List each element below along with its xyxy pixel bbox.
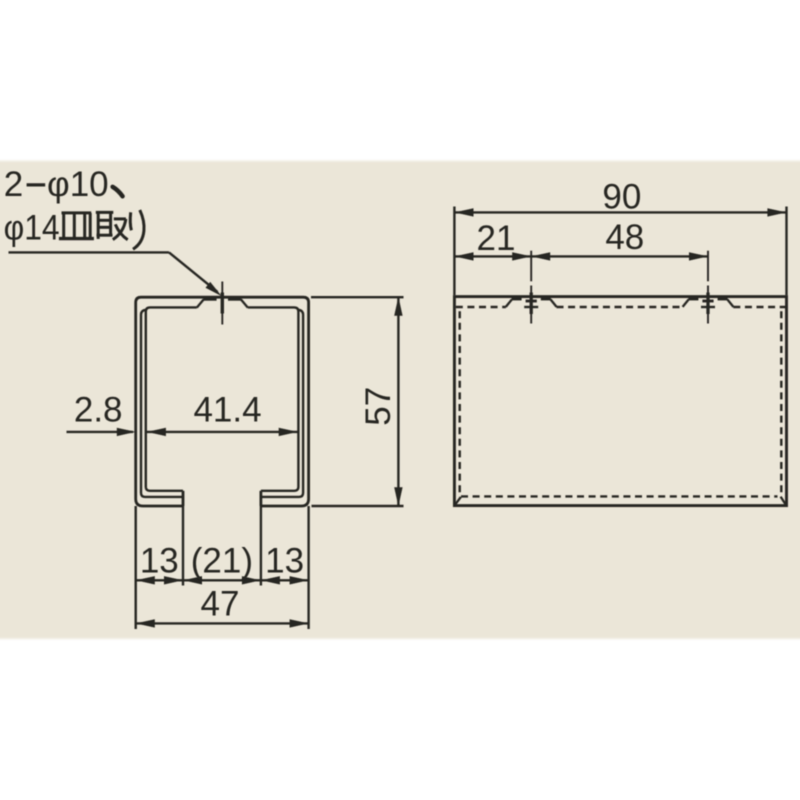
ideographic comma — [113, 187, 123, 197]
svg-text:41.4: 41.4 — [193, 391, 261, 430]
side view: hidden dashed bottom edge — [461, 495, 778, 497]
side view: bottom-right corner diagonal — [781, 497, 786, 505]
dimension 57 extension lines — [311, 296, 404, 298]
side view: countersunk hole 1 ticks — [512, 298, 522, 301]
left view: right flange tip edge — [259, 491, 262, 506]
dimension 41.4 line and arrows — [147, 431, 298, 433]
svg-text:φ14: φ14 — [4, 209, 60, 248]
side view: hidden (dashed) top inner surface line — [456, 306, 506, 308]
side view: countersunk hole 1 chamfer lines — [506, 299, 512, 307]
dimension 21/48 line and arrows — [454, 255, 708, 257]
side view: outer rectangle — [454, 297, 786, 506]
dimension 47 line and arrows — [136, 622, 309, 624]
left view: inner surface line (left wall + top + left flange) — [146, 307, 197, 490]
side view: bottom-left corner diagonal — [455, 497, 461, 505]
left view: countersunk hole left tick — [203, 298, 216, 301]
leader line from note text to countersink — [9, 251, 170, 253]
svg-text:21: 21 — [477, 219, 516, 258]
left view: inner surface line (right wall + top + right flange) — [248, 307, 299, 490]
left view: countersink left chamfer line — [197, 299, 204, 307]
svg-text:48: 48 — [605, 218, 644, 257]
side view: countersunk hole 2 ticks — [688, 298, 698, 301]
hiragana: ri — [130, 210, 144, 249]
svg-text:2.8: 2.8 — [74, 391, 123, 430]
svg-text:(21): (21) — [191, 541, 253, 580]
left view: countersunk hole right tick — [228, 298, 241, 301]
left view: channel cross-section outer profile — [136, 297, 309, 506]
svg-text:φ10: φ10 — [47, 165, 109, 204]
side view: countersunk hole 2 centerline — [707, 251, 709, 282]
dimension 57 line and arrows — [397, 297, 399, 506]
side view: countersunk hole 2 chamfer lines — [683, 299, 689, 307]
dimension 13/(21)/13 line and arrows — [136, 579, 309, 581]
left view: middle fold line right wall — [261, 310, 303, 497]
side view: countersunk hole 1 center mark bar — [526, 300, 537, 303]
left view: countersink right chamfer line — [241, 299, 248, 307]
dimension 90 line and arrows — [454, 211, 786, 213]
left view: hole centerline — [221, 282, 223, 325]
beige drawing background band (soft-edged) — [0, 161, 800, 639]
svg-text:57: 57 — [359, 387, 398, 426]
left view: left flange tip edge — [182, 491, 185, 506]
svg-text:90: 90 — [602, 178, 641, 217]
kanji: sara (dish) — [59, 213, 94, 239]
svg-text:2: 2 — [4, 165, 23, 204]
side view: countersunk hole 2 center mark bar — [702, 300, 713, 303]
svg-text:47: 47 — [201, 585, 240, 624]
left view: middle fold line left wall — [141, 310, 183, 497]
dimension 2.8 line and arrow — [67, 431, 134, 433]
dimension 90 extension lines — [453, 207, 455, 296]
side view: hidden dashed left edge — [459, 311, 461, 497]
svg-text:13: 13 — [265, 541, 304, 580]
svg-text:13: 13 — [140, 541, 179, 580]
side view: hidden dashed right edge — [780, 311, 782, 494]
side view: countersunk hole 1 centerline — [530, 251, 532, 282]
leader arrowhead — [206, 282, 222, 296]
kanji: tori (take) — [96, 212, 128, 239]
bottom extension lines — [134, 506, 136, 629]
